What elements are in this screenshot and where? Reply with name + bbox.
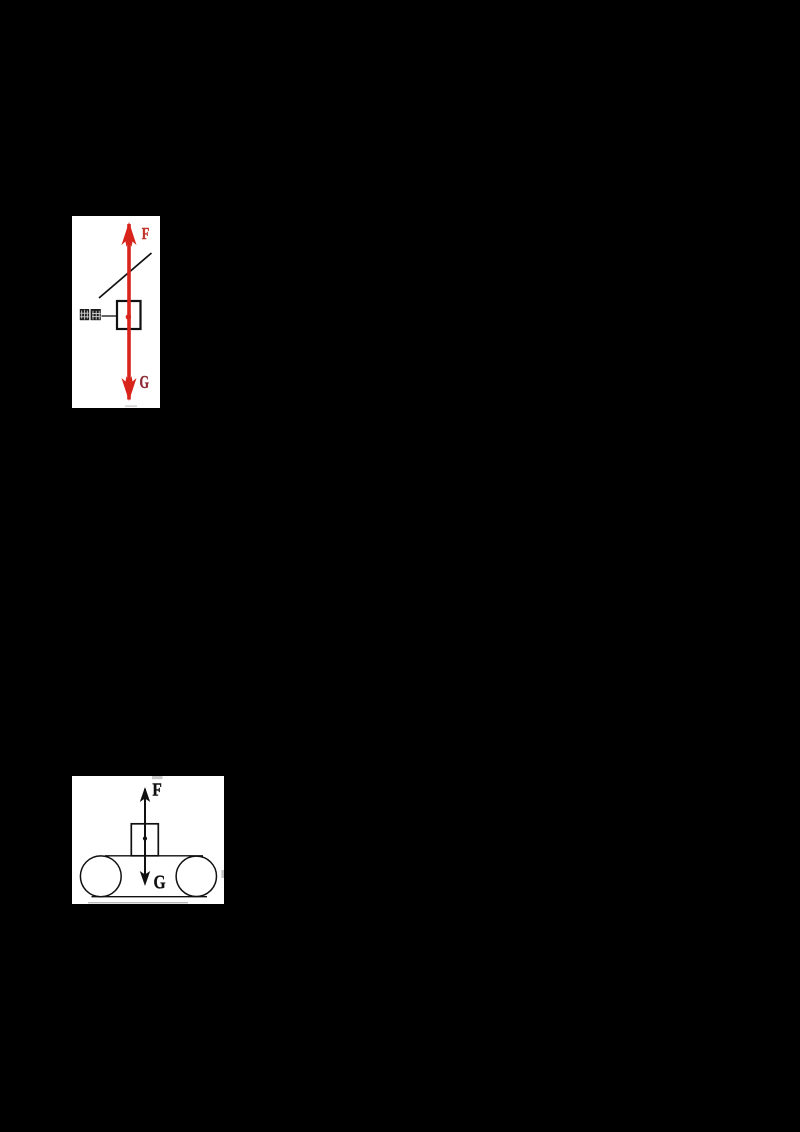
label glyph jiao (轿)	[80, 309, 89, 320]
figure 2: block on conveyor belt free-body diagram	[72, 776, 224, 904]
component: block box	[131, 824, 158, 856]
svg-text:F: F	[152, 780, 161, 800]
artifact: bottom gray scan line	[88, 902, 188, 903]
component: belt top line	[105, 855, 203, 857]
svg-text:G: G	[154, 871, 166, 893]
label F overline	[152, 776, 163, 779]
artifact: bottom gray smudge	[125, 405, 137, 407]
wire: diagonal cable line	[99, 253, 152, 298]
label glyph xiang (厢)	[91, 309, 101, 320]
node G arrowhead (down)	[122, 376, 137, 401]
artifact: right edge gray tick	[221, 870, 224, 878]
node center dot	[143, 836, 147, 840]
wire: black force shaft	[144, 789, 146, 883]
node G arrowhead (down)	[140, 871, 150, 886]
figure 1: elevator car free-body diagram	[72, 216, 160, 408]
svg-text:F: F	[142, 225, 150, 243]
component: right roller	[176, 856, 216, 896]
svg-text:G: G	[140, 374, 150, 393]
component: car box	[117, 301, 141, 329]
label leader dash	[102, 315, 117, 317]
node F arrowhead (up)	[122, 222, 137, 247]
wire: red force shaft F-G	[127, 224, 131, 400]
component: left roller	[80, 856, 121, 897]
node center dot (red)	[126, 314, 131, 319]
node F arrowhead (up)	[140, 787, 150, 802]
component: belt bottom line	[92, 896, 208, 898]
